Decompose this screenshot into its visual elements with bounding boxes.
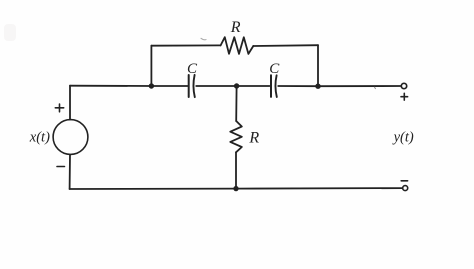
capacitor C1 right plate (193, 75, 194, 97)
node D junction dot (315, 84, 320, 89)
output terminal bottom (open) (403, 186, 408, 191)
stray tick on output wire (374, 87, 375, 89)
output terminal + mark (401, 93, 408, 100)
svg-text:y(t): y(t) (392, 129, 414, 145)
resistor R1 (feedback) (221, 37, 254, 54)
output terminal - mark (401, 180, 407, 182)
svg-text:C: C (187, 61, 198, 77)
wire: feedback branch top left (151, 44, 220, 46)
node B junction dot (234, 83, 239, 88)
wire: node D to output terminal (318, 85, 401, 87)
wire: bottom rail right segment (236, 187, 402, 190)
voltage source x(t) (53, 120, 88, 155)
output terminal top (open) (401, 83, 406, 88)
wire: resistor R2 to bottom rail (235, 152, 237, 188)
wire: feedback branch top right (253, 44, 318, 47)
wire: top rail node A to capacitor C1 (151, 85, 187, 87)
wire: node B to capacitor C2 (237, 85, 270, 87)
capacitor C2 right plate (275, 75, 276, 97)
stray pen tick near R1 (201, 38, 206, 39)
svg-text:R: R (248, 130, 259, 147)
wire: source top lead (69, 86, 71, 120)
wire: main top rail left segment (70, 85, 151, 87)
capacitor C2 left plate (270, 75, 272, 97)
resistor R2 (shunt) (230, 121, 242, 152)
polarity + of source (55, 104, 63, 112)
wire: node B to resistor R2 (235, 86, 237, 121)
wire: left riser of feedback branch (150, 46, 152, 86)
wire: right riser of feedback branch (317, 45, 319, 86)
svg-text:C: C (269, 61, 280, 77)
polarity - of source (57, 166, 65, 168)
node E junction dot (bottom) (233, 186, 238, 191)
wire: capacitor C1 to node B (196, 85, 236, 87)
capacitor C1 left plate (188, 75, 190, 97)
wire: capacitor C2 to node D (278, 85, 318, 87)
paper smudge (4, 24, 16, 41)
wire: source bottom lead (69, 155, 71, 189)
svg-text:x(t): x(t) (29, 129, 50, 145)
svg-text:R: R (230, 19, 241, 36)
node A junction dot (149, 83, 154, 88)
wire: bottom rail left segment (70, 188, 236, 190)
